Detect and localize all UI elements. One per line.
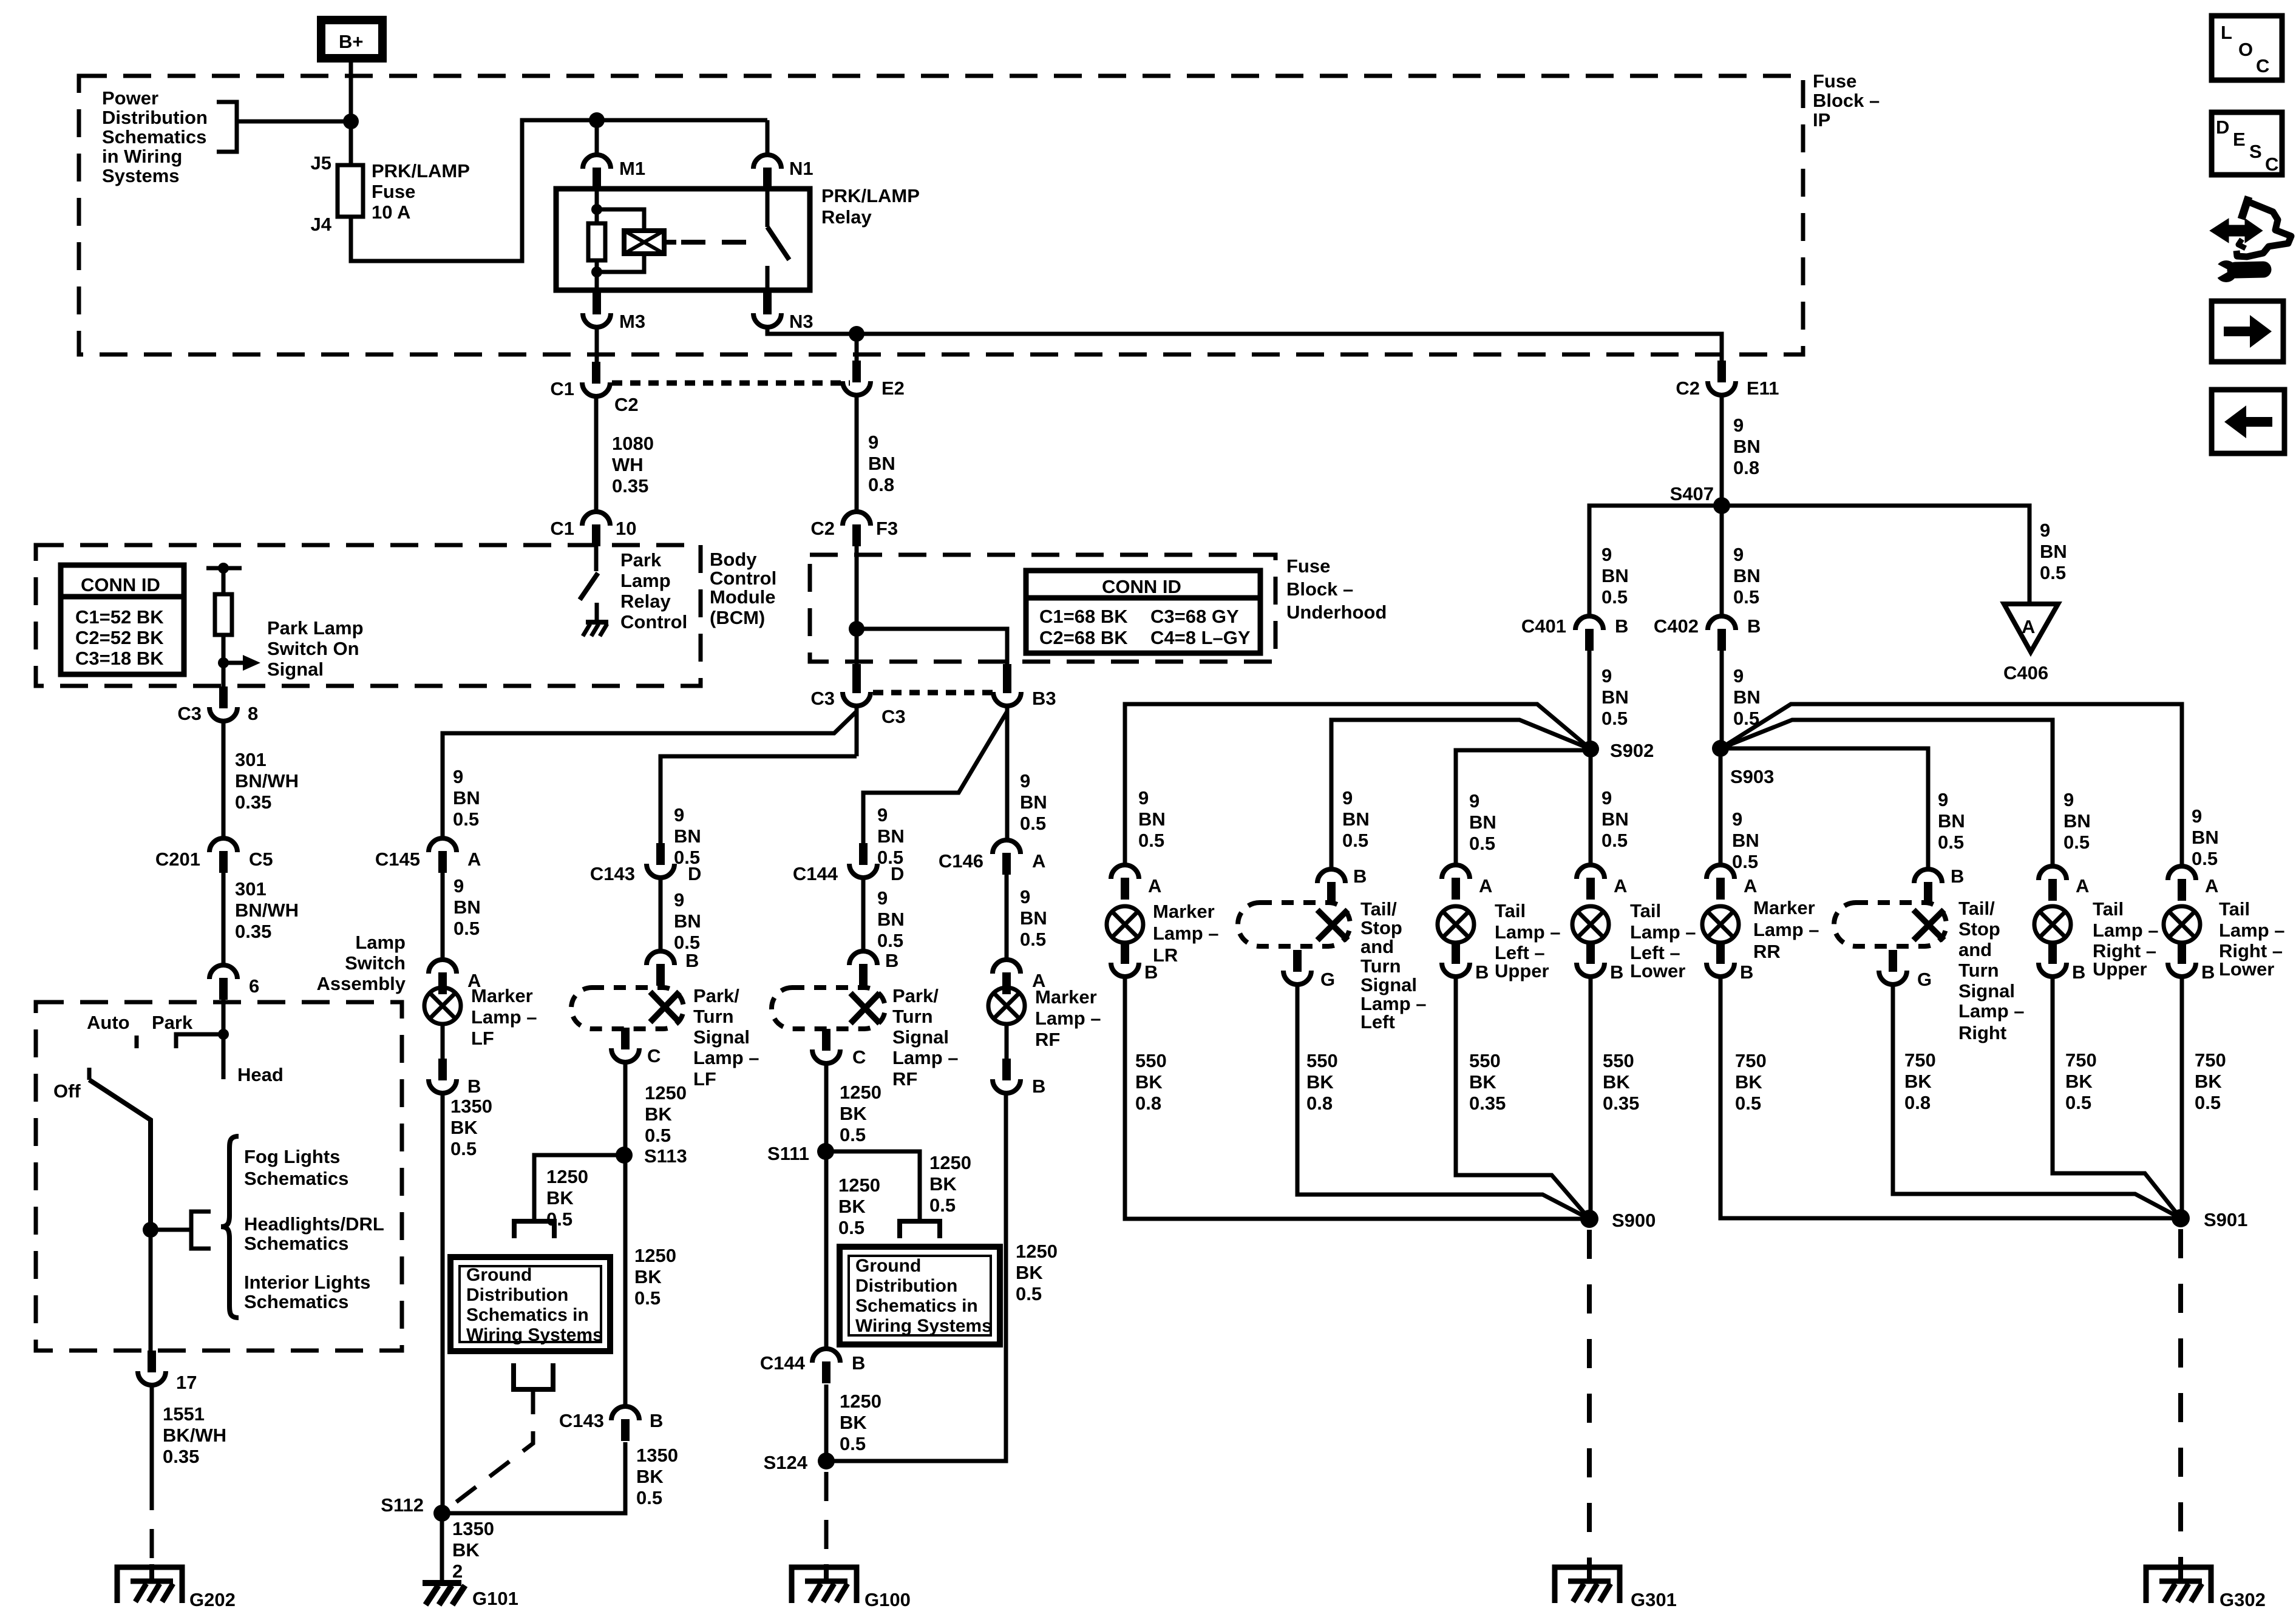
svg-text:A: A <box>1614 875 1627 897</box>
svg-text:G: G <box>1917 969 1932 990</box>
svg-text:C145: C145 <box>375 849 420 870</box>
svg-text:Auto: Auto <box>87 1012 130 1033</box>
wire signal arrow <box>223 655 260 671</box>
node S407 <box>1713 497 1730 514</box>
svg-text:C401: C401 <box>1521 615 1566 637</box>
svg-text:C402: C402 <box>1654 615 1699 637</box>
node park lamp switch top junction <box>218 563 229 574</box>
connector C143 pin D <box>647 843 674 878</box>
wire marker LF lamp to pin B <box>441 1024 445 1061</box>
svg-text:B: B <box>1615 615 1628 637</box>
wire S407 branch to C406 <box>1722 506 2029 604</box>
wire C201 to lamp switch pin 6 <box>222 873 226 965</box>
connector tail/stop right pin B <box>1914 869 1942 904</box>
wire C144 D to park/turn RF pin B <box>861 878 866 951</box>
connector C1 pin 10 <box>582 512 610 546</box>
wire S902 bus to tail left upper <box>1456 750 1591 865</box>
bracket ground distribution feed <box>514 1221 554 1238</box>
svg-text:C144: C144 <box>793 863 838 884</box>
wire branch to B3 <box>857 629 1007 673</box>
svg-text:M3: M3 <box>619 311 645 332</box>
connector marker LR pin A <box>1111 865 1139 900</box>
Body Control Module BCM dashed box <box>36 545 701 686</box>
svg-text:S: S <box>2249 141 2262 162</box>
relay PRK/LAMP Relay box <box>556 189 810 290</box>
wire dashed return to S112 <box>443 1389 533 1512</box>
connector park/turn RF pin C <box>812 1029 840 1063</box>
node relay coil top junction <box>591 204 602 215</box>
wire C146 to marker lamp RF <box>1005 875 1009 960</box>
ground G202 <box>117 1564 182 1603</box>
connector marker LF pin B <box>429 1059 457 1093</box>
svg-text:C2=68 BK: C2=68 BK <box>1039 627 1128 648</box>
svg-text:Fog LightsSchematics: Fog LightsSchematics <box>244 1146 348 1189</box>
Lamp Switch Assembly dashed box <box>36 1002 402 1351</box>
wire N1 pin into relay <box>766 189 770 227</box>
connector tail left lower pin A <box>1577 865 1605 900</box>
svg-text:B: B <box>2072 961 2085 983</box>
connector park/turn LF pin B <box>647 951 674 986</box>
wire B+ to fuse J5 <box>349 63 353 165</box>
connector C2 pin E11 <box>1708 361 1736 395</box>
svg-text:C146: C146 <box>939 850 983 872</box>
svg-text:G100: G100 <box>864 1589 911 1610</box>
bracket schematics tap <box>191 1212 211 1249</box>
wire resistor to signal node <box>222 635 226 686</box>
svg-text:Off: Off <box>53 1080 81 1102</box>
svg-text:B: B <box>1951 866 1964 887</box>
bracket ground distribution return <box>514 1363 553 1389</box>
svg-text:A: A <box>2076 875 2089 897</box>
wire S903 bus to tail right lower <box>1720 704 2182 866</box>
lamp Tail Lamp - Right - Upper <box>2034 906 2071 943</box>
svg-text:Schematics in: Schematics in <box>855 1296 978 1316</box>
connector tail left upper pin B <box>1442 942 1470 977</box>
wire marker RR ground to S901 <box>1720 977 2181 1218</box>
wire S111 branch to ground distribution <box>826 1151 920 1221</box>
connector tail left lower pin B <box>1577 942 1605 977</box>
svg-text:C144: C144 <box>760 1352 806 1374</box>
connector E2 <box>843 361 871 395</box>
svg-text:M1: M1 <box>619 158 645 179</box>
wire marker LR ground to S900 <box>1125 977 1589 1219</box>
wire S903 bus to tail right upper <box>1720 720 2053 866</box>
wire C3 diagonal to C145 run <box>443 711 857 838</box>
wire BCM pin 10 stub <box>594 546 599 571</box>
svg-text:J4: J4 <box>311 214 332 235</box>
svg-text:C1: C1 <box>550 518 574 539</box>
svg-text:S407: S407 <box>1670 483 1714 504</box>
connector C1 C2 <box>582 362 610 396</box>
wire C145 to marker lamp LF <box>441 873 445 960</box>
svg-text:S113: S113 <box>644 1145 687 1167</box>
node S111 <box>817 1143 834 1160</box>
connector tail right upper pin A <box>2039 866 2067 901</box>
svg-text:6: 6 <box>249 975 259 997</box>
lamp Tail Lamp - Right - Lower <box>2164 906 2200 943</box>
connector tail/stop left pin B <box>1317 869 1345 904</box>
switch Park contact <box>176 1034 223 1048</box>
wire coil top branch <box>597 209 644 231</box>
svg-text:C5: C5 <box>249 849 273 870</box>
box Ground Distribution Schematics in Wiring Systems (left) <box>450 1257 610 1351</box>
svg-text:A: A <box>1744 875 1757 897</box>
wire relay fixed contact to N3 <box>766 266 770 290</box>
lamp Marker Lamp - RR <box>1702 906 1739 943</box>
svg-text:B: B <box>1747 615 1761 637</box>
svg-text:C201: C201 <box>155 849 200 870</box>
wire S407 down to C402 <box>1720 506 1724 616</box>
lamp Marker Lamp - RF <box>988 988 1025 1024</box>
ground BCM relay control ground <box>583 603 608 636</box>
wire S902 bus to marker LR <box>1125 704 1591 865</box>
connector C144 pin D <box>849 843 877 878</box>
wire C143 D to park/turn LF pin B <box>659 878 663 951</box>
connector tail right lower pin B <box>2168 942 2196 977</box>
connector tail right lower pin A <box>2168 866 2196 901</box>
wire S113 branch to ground distribution <box>534 1155 624 1221</box>
svg-text:B3: B3 <box>1032 688 1056 709</box>
svg-text:C3: C3 <box>810 688 835 709</box>
wire S111 down to C144 pin B <box>826 1151 826 1349</box>
wire dashed S124 to G100 <box>824 1472 829 1564</box>
svg-text:C3: C3 <box>177 703 202 724</box>
connector marker RR pin A <box>1707 865 1734 900</box>
svg-text:B+: B+ <box>339 31 364 52</box>
lamp park/turn LF filament X <box>650 992 679 1022</box>
lamp Marker Lamp - LR <box>1107 906 1143 943</box>
svg-text:Park: Park <box>152 1012 193 1033</box>
node underhood junction <box>849 621 864 637</box>
svg-text:E11: E11 <box>1747 378 1779 399</box>
connector park/turn RF pin B <box>849 951 877 986</box>
svg-text:B: B <box>852 1352 865 1374</box>
svg-text:B: B <box>467 1076 481 1097</box>
svg-text:L: L <box>2221 22 2232 43</box>
svg-text:N1: N1 <box>789 158 813 179</box>
icon forward arrow box <box>2212 301 2283 362</box>
wire C144 B to S124 <box>824 1385 829 1461</box>
svg-text:A: A <box>2205 875 2218 897</box>
node junction at E2 drop <box>849 326 864 342</box>
wire C3 pin 8 to C201 <box>222 721 226 838</box>
node S902 <box>1582 741 1599 758</box>
node relay coil bottom junction <box>591 266 602 277</box>
lamp tail/stop right filament X <box>1914 910 1944 940</box>
connector marker LR pin B <box>1111 942 1139 977</box>
connector C402 pin B <box>1708 616 1736 651</box>
wire coil actuator stub <box>664 240 676 245</box>
svg-text:A: A <box>1148 875 1161 897</box>
svg-text:G302: G302 <box>2220 1589 2266 1610</box>
lamp Park/Turn Signal Lamp - LF capsule <box>571 988 684 1029</box>
wire F3 through fuse block <box>855 546 859 673</box>
wire tail left lower ground to S900 <box>1589 977 1593 1219</box>
wire marker RF lamp to pin B <box>1005 1024 1009 1061</box>
svg-text:C1=52 BK: C1=52 BK <box>75 606 164 628</box>
svg-text:A: A <box>1479 875 1492 897</box>
svg-text:8: 8 <box>248 703 258 724</box>
connector N3 <box>753 293 781 327</box>
connector C145 pin A <box>429 838 457 873</box>
connector marker RF pin B <box>993 1059 1021 1093</box>
connector M1 <box>583 155 611 189</box>
svg-text:E: E <box>2233 129 2246 150</box>
wire S902 bus to tail/stop left <box>1331 720 1591 869</box>
svg-text:C406: C406 <box>2003 662 2048 683</box>
wire relay actuator dashed link <box>681 240 758 245</box>
wire S113 down to C143 pin B <box>624 1155 625 1406</box>
connector C401 pin B <box>1575 616 1603 651</box>
connector marker LF pin A <box>429 960 457 994</box>
svg-text:G101: G101 <box>472 1588 518 1609</box>
Fuse Block - IP dashed box <box>79 76 1803 354</box>
svg-text:Schematics in: Schematics in <box>466 1305 589 1325</box>
wire C3 stub through border <box>852 664 861 675</box>
svg-text:B: B <box>2201 961 2215 983</box>
svg-text:S902: S902 <box>1610 740 1654 761</box>
icon back arrow box <box>2212 390 2284 453</box>
wire switch output tap <box>151 1228 191 1232</box>
resistor park lamp switch pull-up <box>215 594 232 635</box>
connector C2 pin F3 <box>843 512 871 546</box>
wire power distribution tap <box>237 120 351 124</box>
svg-text:C143: C143 <box>559 1410 604 1431</box>
switch relay contact blade <box>767 227 789 260</box>
svg-text:B: B <box>685 950 699 971</box>
svg-text:D: D <box>688 863 701 884</box>
connector tail/stop right pin G <box>1879 950 1907 985</box>
node junction at M1 rail <box>589 112 605 128</box>
wire C401 to S902 <box>1588 651 1592 749</box>
svg-text:A: A <box>1032 850 1045 872</box>
wire S902 down to tail left lower <box>1589 749 1593 865</box>
svg-text:A: A <box>467 849 481 870</box>
wire B3 diagonal to C144 run <box>863 711 1007 846</box>
svg-text:Ground: Ground <box>466 1265 532 1285</box>
ground G100 <box>792 1564 857 1603</box>
svg-text:D: D <box>891 863 904 884</box>
switch Off contact <box>87 1068 92 1080</box>
svg-text:B: B <box>1610 961 1623 983</box>
connector marker RR pin B <box>1707 942 1734 977</box>
wire rail drop to N1 <box>766 120 770 155</box>
node junction at B+ feed <box>343 114 359 129</box>
connector C3 (underhood out) <box>843 671 871 706</box>
lamp tail/stop left filament X <box>1317 910 1348 940</box>
relay coil element <box>624 231 664 254</box>
wire C3 run to C143 <box>661 756 857 846</box>
svg-text:10: 10 <box>616 518 636 539</box>
connector C3 pin 8 <box>209 686 237 721</box>
connector pin 6 <box>209 965 237 1000</box>
svg-text:Wiring Systems: Wiring Systems <box>466 1325 603 1345</box>
table CONN ID (underhood) <box>1026 571 1260 653</box>
wire S112 to G101 <box>440 1513 444 1583</box>
wire tail left upper ground to S900 <box>1456 977 1589 1219</box>
svg-text:J5: J5 <box>311 152 331 174</box>
svg-text:B: B <box>885 950 898 971</box>
svg-text:C2: C2 <box>810 518 835 539</box>
svg-text:B: B <box>1475 961 1489 983</box>
fuse PRK/LAMP Fuse 10 A <box>338 165 363 217</box>
wire resistor bottom to M3 <box>595 260 599 290</box>
svg-text:Distribution: Distribution <box>466 1285 568 1305</box>
connector marker RF pin A <box>993 960 1021 994</box>
wire tail/stop left ground to S900 <box>1297 984 1589 1219</box>
wire park/turn LF ground to S113 <box>623 1062 628 1155</box>
connector C406 off-page triangle A <box>2004 604 2058 652</box>
switch Auto contact <box>135 1036 139 1048</box>
wire pin 6 into switch <box>222 1000 226 1079</box>
svg-text:B: B <box>650 1410 663 1431</box>
svg-text:C2: C2 <box>614 394 639 415</box>
svg-text:C1: C1 <box>550 378 574 399</box>
svg-text:S901: S901 <box>2204 1209 2247 1230</box>
lamp Park/Turn Signal Lamp - RF capsule <box>772 988 885 1029</box>
lamp Tail/Stop and Turn Signal Lamp - Left capsule <box>1238 903 1350 946</box>
wire E11 to S407 <box>1720 395 1724 506</box>
wire C402 to S903 <box>1720 651 1724 748</box>
node S124 <box>818 1453 835 1470</box>
svg-text:O: O <box>2238 39 2253 60</box>
wire M3 to connector C1 <box>595 327 599 362</box>
svg-text:C2: C2 <box>1676 378 1700 399</box>
wire tail right upper ground to S901 <box>2053 977 2181 1218</box>
wire pin 17 lead <box>150 1385 154 1481</box>
box Ground Distribution Schematics in Wiring Systems (middle) <box>840 1247 1000 1344</box>
wire S407 branch to C401 <box>1589 506 1722 616</box>
svg-text:S111: S111 <box>767 1143 809 1164</box>
icon LOC box <box>2212 16 2282 80</box>
ground G302 <box>2146 1564 2211 1603</box>
svg-text:C: C <box>852 1046 866 1068</box>
switch park lamp switch top contact <box>206 566 242 571</box>
table CONN ID (BCM) <box>61 565 184 674</box>
svg-text:B: B <box>1353 866 1367 887</box>
wire S903 down to marker RR <box>1719 748 1723 865</box>
svg-text:G: G <box>1320 969 1335 990</box>
svg-text:C3=18 BK: C3=18 BK <box>75 648 164 669</box>
svg-text:S112: S112 <box>381 1494 424 1516</box>
svg-text:E2: E2 <box>881 378 905 399</box>
svg-text:S903: S903 <box>1730 766 1774 787</box>
wire S903 bus to tail/stop right <box>1720 748 1928 867</box>
connector C201 pin C5 <box>209 838 237 873</box>
wire S124 to marker RF ground run <box>826 1093 1006 1461</box>
connector C144 pin B <box>812 1349 840 1383</box>
wire E2 to underhood F3 <box>855 395 859 512</box>
svg-text:B: B <box>1144 961 1158 983</box>
ground G101 <box>423 1583 465 1605</box>
svg-text:G301: G301 <box>1631 1589 1677 1610</box>
svg-text:CONN ID: CONN ID <box>81 574 160 595</box>
connector C143 pin B <box>611 1406 639 1441</box>
svg-text:S124: S124 <box>764 1452 808 1473</box>
node S901 <box>2172 1209 2190 1227</box>
wire connector C1/C2 boundary dotted <box>612 381 850 386</box>
connector tail/stop left pin G <box>1283 950 1311 985</box>
bracket ground distribution feed (middle) <box>900 1221 940 1238</box>
wire rail drop to M1 <box>595 120 599 155</box>
wire C1 to BCM pin 10 <box>594 396 599 512</box>
connector park/turn LF pin C <box>611 1028 639 1062</box>
svg-text:C: C <box>2265 154 2278 175</box>
Fuse Block - Underhood dashed box <box>810 555 1275 662</box>
svg-text:17: 17 <box>176 1372 197 1393</box>
icon service tool hand <box>2211 197 2291 282</box>
svg-text:D: D <box>2216 117 2229 138</box>
connector C146 pin A <box>993 840 1021 875</box>
svg-text:A: A <box>2022 616 2035 637</box>
wire E2 drop <box>855 334 859 362</box>
resistor relay coil resistor <box>588 223 605 260</box>
connector pin 17 <box>138 1351 166 1385</box>
ground G301 <box>1555 1564 1620 1603</box>
connector tail left upper pin A <box>1442 865 1470 900</box>
wire N3 to E2 and E11 <box>767 327 1722 362</box>
svg-text:C3: C3 <box>881 706 906 727</box>
lamp Marker Lamp - LF <box>424 988 461 1024</box>
wire switch output through box edge <box>149 1230 153 1351</box>
svg-text:Wiring Systems: Wiring Systems <box>855 1316 992 1336</box>
svg-text:B: B <box>1032 1076 1045 1097</box>
wire M1 pin into relay <box>595 189 599 223</box>
svg-text:CONN ID: CONN ID <box>1102 576 1181 597</box>
lamp Tail/Stop and Turn Signal Lamp - Right capsule <box>1834 903 1946 946</box>
switch Park Lamp Relay Control blade <box>580 573 598 600</box>
svg-text:C3=68 GY: C3=68 GY <box>1150 606 1239 627</box>
wire marker LF ground lead to S112 <box>441 1093 445 1513</box>
connector B3 <box>993 671 1021 706</box>
lamp park/turn RF filament X <box>851 993 880 1023</box>
icon DESC box <box>2212 112 2282 175</box>
svg-text:C: C <box>647 1045 661 1066</box>
node S113 <box>616 1147 633 1164</box>
svg-text:C4=8 L–GY: C4=8 L–GY <box>1150 627 1251 648</box>
wire connector C3/B3 boundary dotted <box>873 690 993 696</box>
wire B3 stub through border <box>1003 664 1011 675</box>
svg-text:C1=68 BK: C1=68 BK <box>1039 606 1128 627</box>
svg-text:S900: S900 <box>1612 1210 1656 1231</box>
svg-text:C2=52 BK: C2=52 BK <box>75 627 164 648</box>
switch rotary blade <box>89 1080 151 1230</box>
wire B3 down to C146 <box>1005 706 1010 838</box>
svg-text:Head: Head <box>237 1064 284 1085</box>
node S112 <box>433 1505 450 1522</box>
connector M3 <box>583 293 611 327</box>
node S900 <box>1580 1210 1598 1228</box>
node park lamp switch signal junction <box>218 657 229 668</box>
lamp Tail Lamp - Left - Lower <box>1572 906 1609 943</box>
svg-text:B: B <box>1740 961 1753 983</box>
bracket to power distribution reference <box>217 102 237 152</box>
wire park/turn RF ground to S111 <box>824 1063 829 1151</box>
wire dashed S901 to G302 <box>2178 1229 2183 1564</box>
wire C3 down branch <box>855 706 859 756</box>
connector N1 <box>753 155 781 189</box>
wire dashed S900 to G301 <box>1587 1230 1592 1564</box>
lamp Tail Lamp - Left - Upper <box>1438 906 1474 943</box>
svg-text:G202: G202 <box>189 1589 236 1610</box>
svg-text:Distribution: Distribution <box>855 1276 957 1296</box>
wire tail right lower ground to S901 <box>2180 977 2184 1218</box>
svg-text:Ground: Ground <box>855 1256 921 1276</box>
svg-text:F3: F3 <box>876 518 898 539</box>
wire dashed lead to G202 <box>150 1481 154 1564</box>
wire fuse J4 to relay feed rail <box>351 120 767 261</box>
svg-text:C143: C143 <box>590 863 635 884</box>
